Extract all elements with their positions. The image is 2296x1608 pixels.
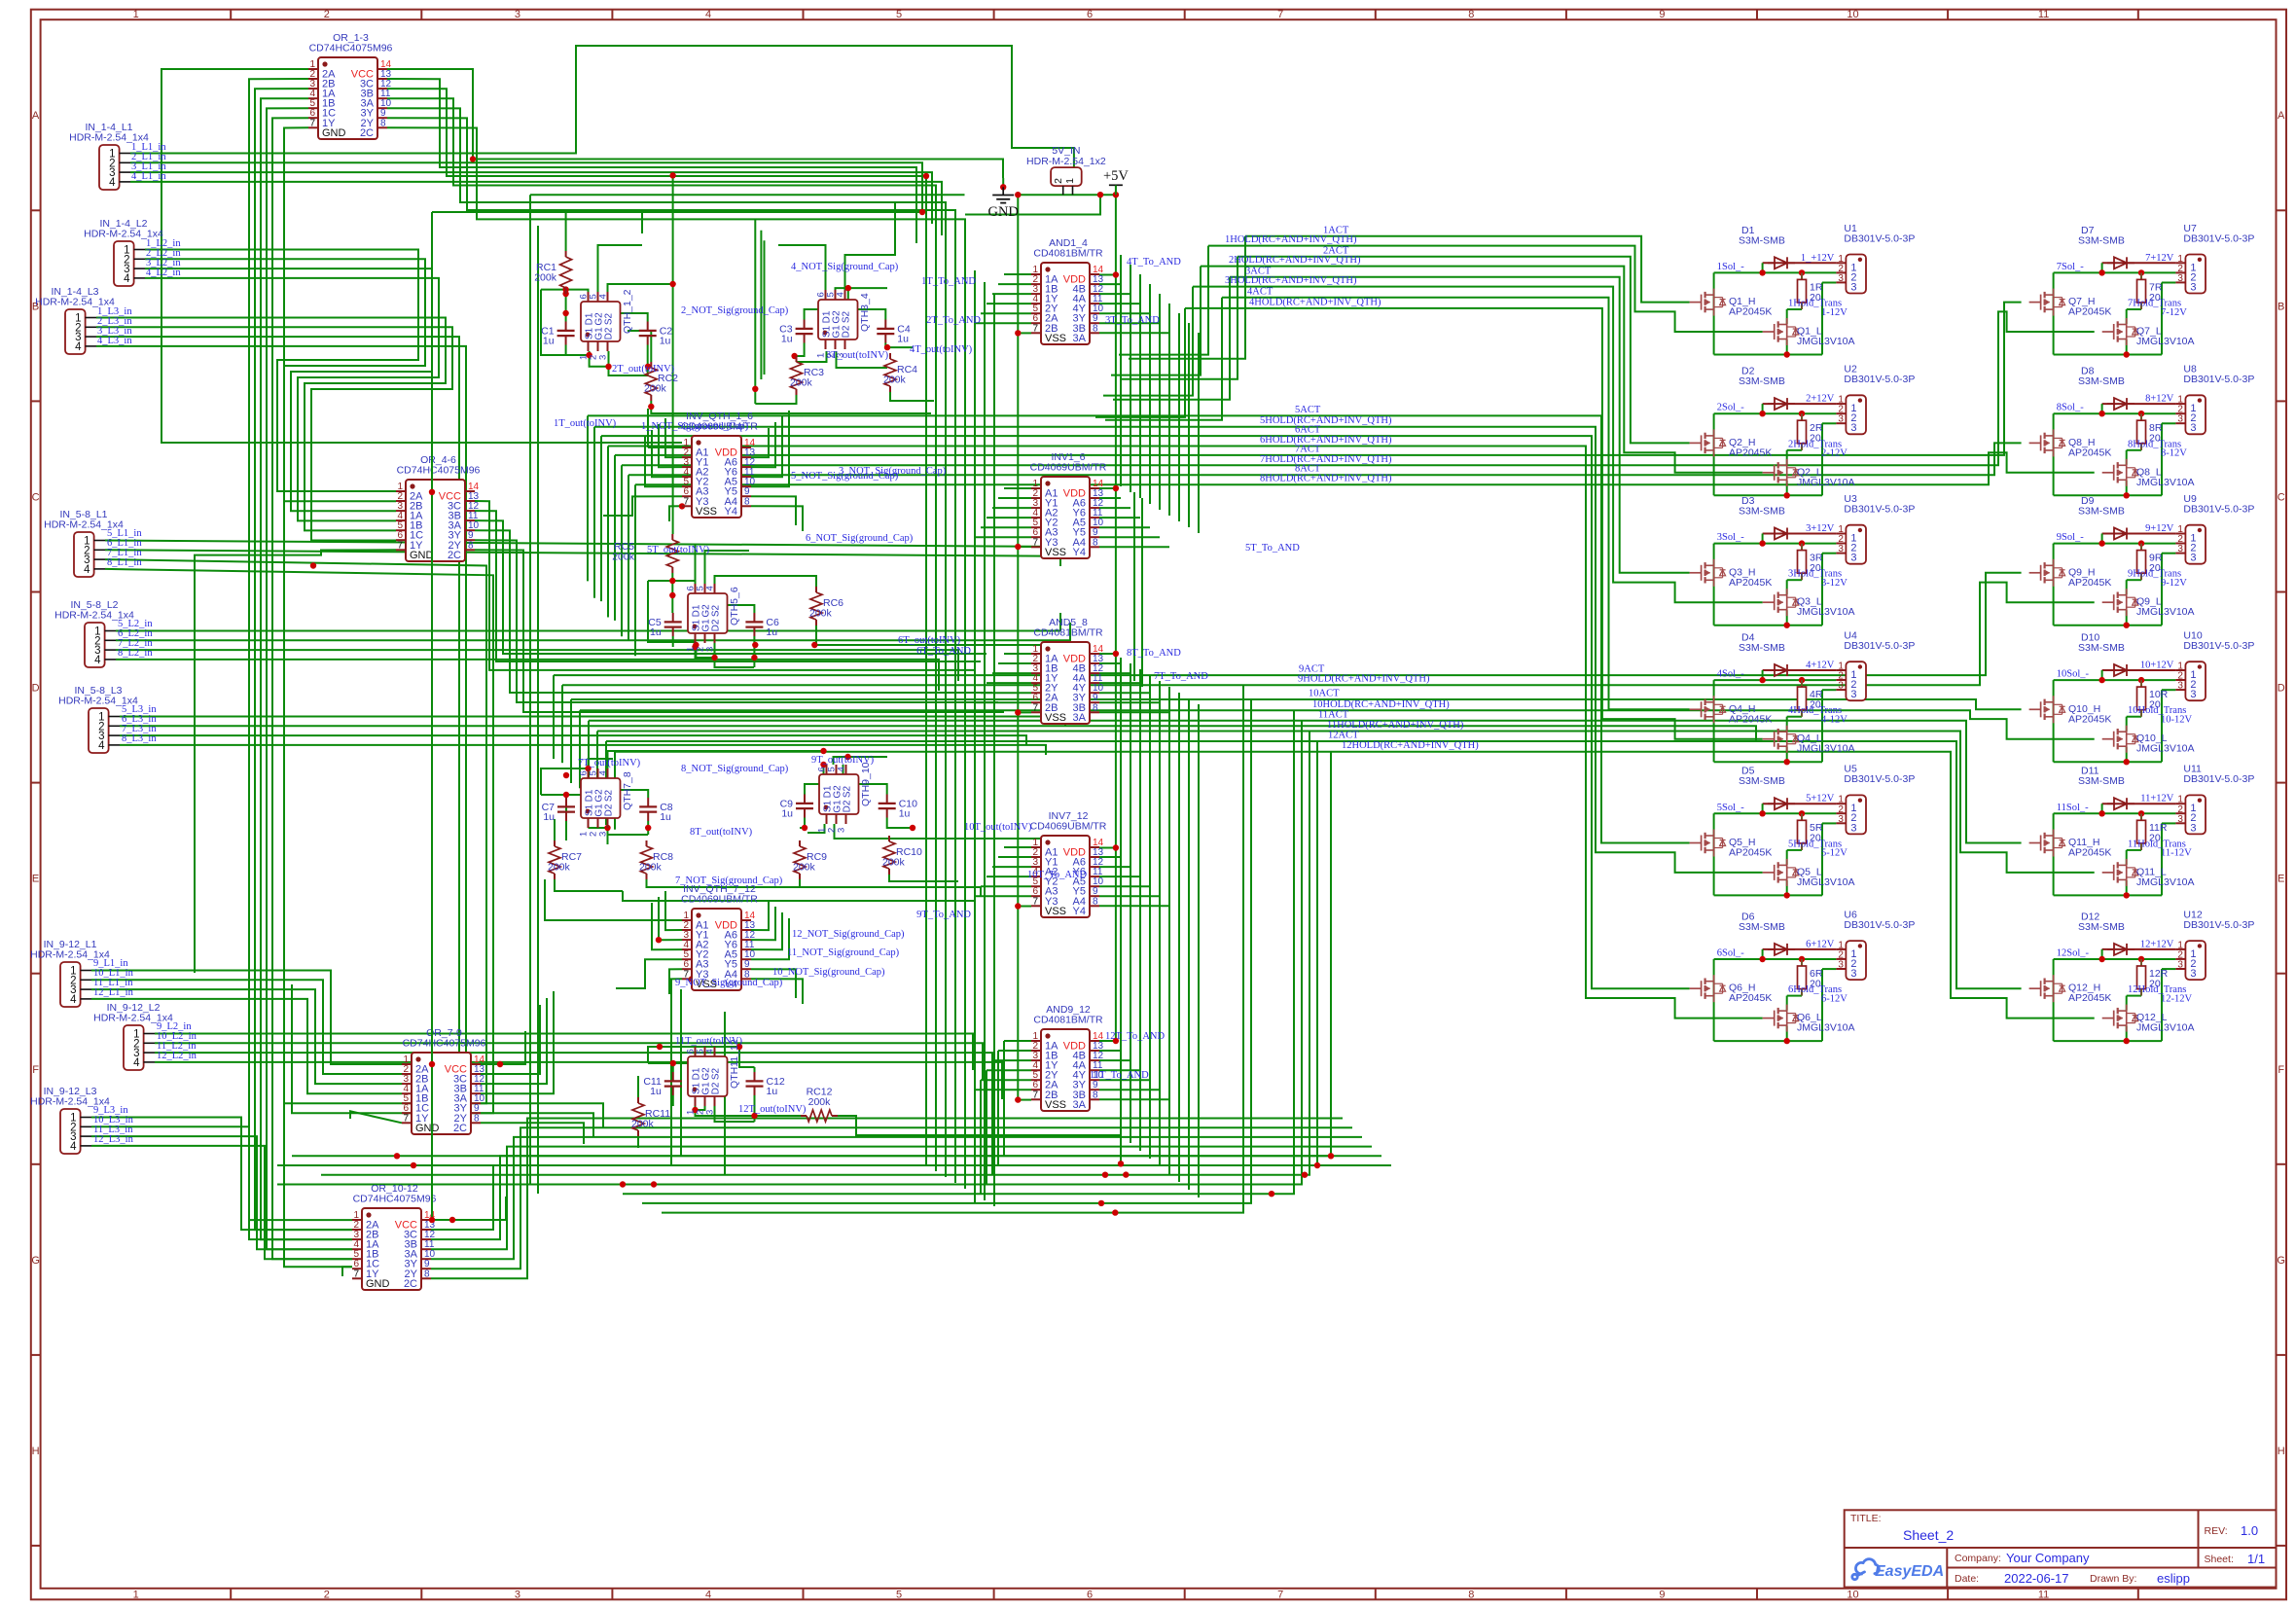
- node junction: [1113, 1038, 1119, 1044]
- wire: [1168, 304, 1170, 516]
- svg-text:8T_To_AND: 8T_To_AND: [1127, 648, 1181, 659]
- svg-text:11T_out(toINV): 11T_out(toINV): [675, 1036, 743, 1047]
- wire: [606, 741, 2022, 988]
- transistor Q6_H AP2045K: [1701, 981, 1703, 996]
- transistor Q7_H AP2045K: [2040, 295, 2042, 310]
- wire driver block 9: [2102, 533, 2176, 535]
- wire: [598, 245, 643, 292]
- wire: [541, 768, 589, 795]
- wire: [987, 875, 1031, 877]
- wire: [1095, 308, 1185, 417]
- node junction: [1098, 1200, 1104, 1206]
- svg-text:3-12V: 3-12V: [1821, 578, 1848, 589]
- wire: [1188, 323, 1190, 527]
- wire: [925, 212, 927, 1165]
- wire: [1133, 492, 1135, 681]
- node junction: [648, 404, 654, 410]
- capacitor C4 1u: [884, 320, 886, 329]
- svg-text:4: 4: [70, 1141, 77, 1153]
- svg-text:2C: 2C: [360, 127, 374, 139]
- wire: [1185, 308, 1763, 739]
- svg-text:DB301V-5.0-3P: DB301V-5.0-3P: [2183, 374, 2254, 385]
- wire: [992, 507, 1031, 509]
- svg-text:4: 4: [705, 586, 716, 590]
- svg-text:JMGL3V10A: JMGL3V10A: [2136, 477, 2195, 488]
- svg-text:3: 3: [1838, 544, 1844, 554]
- transistor Q4_L JMGL3V10A: [1774, 732, 1776, 747]
- wire: [753, 636, 755, 667]
- svg-text:10_NOT_Sig(ground_Cap): 10_NOT_Sig(ground_Cap): [772, 967, 885, 978]
- wire: [116, 650, 958, 681]
- header IN_9-12_L2 HDR-M-2.54_1x4: [124, 1025, 144, 1070]
- svg-text:3HOLD(RC+AND+INV_QTH): 3HOLD(RC+AND+INV_QTH): [1225, 275, 1357, 286]
- svg-text:AP2045K: AP2045K: [1729, 992, 1772, 1004]
- IC AND5_8 CD4081BM/TR: [1041, 642, 1090, 724]
- svg-text:9Sol_-: 9Sol_-: [2057, 532, 2085, 543]
- IC OR_10-12 CD74HC4075M96: [362, 1208, 421, 1290]
- svg-text:JMGL3V10A: JMGL3V10A: [1797, 477, 1855, 488]
- node junction: [604, 825, 610, 831]
- resistor 4R 20: [1801, 680, 1803, 687]
- wire: [754, 219, 756, 404]
- svg-text:F: F: [32, 1064, 39, 1076]
- wire: [598, 790, 649, 798]
- wire: [1129, 236, 1245, 359]
- wire: [987, 517, 1031, 518]
- wire: [475, 530, 992, 693]
- wire: [105, 559, 486, 1103]
- svg-text:DB301V-5.0-3P: DB301V-5.0-3P: [2183, 919, 2254, 931]
- wire: [588, 721, 590, 804]
- wire: [590, 351, 609, 367]
- wire: [475, 550, 1004, 712]
- wire: [751, 428, 769, 457]
- svg-text:DB301V-5.0-3P: DB301V-5.0-3P: [2183, 640, 2254, 652]
- svg-text:Sheet:: Sheet:: [2205, 1554, 2234, 1565]
- svg-text:DB301V-5.0-3P: DB301V-5.0-3P: [1844, 919, 1915, 931]
- wire: [1099, 293, 1130, 295]
- svg-text:S3M-SMB: S3M-SMB: [1739, 775, 1785, 787]
- wire: [751, 506, 803, 531]
- wire: [565, 345, 567, 356]
- svg-text:200k: 200k: [639, 862, 663, 874]
- wire: [120, 735, 1026, 745]
- svg-text:AP2045K: AP2045K: [1729, 713, 1772, 725]
- svg-text:9HOLD(RC+AND+INV_QTH): 9HOLD(RC+AND+INV_QTH): [1298, 674, 1430, 685]
- svg-text:2C: 2C: [448, 550, 461, 561]
- node junction: [1113, 844, 1119, 850]
- wire: [695, 645, 697, 658]
- svg-text:JMGL3V10A: JMGL3V10A: [1797, 606, 1855, 618]
- wire: [980, 1080, 982, 1194]
- svg-text:AP2045K: AP2045K: [2068, 577, 2111, 589]
- svg-text:12-12V: 12-12V: [2161, 993, 2192, 1004]
- svg-text:4HOLD(RC+AND+INV_QTH): 4HOLD(RC+AND+INV_QTH): [1249, 297, 1381, 307]
- wire: [555, 879, 623, 891]
- connector U4 DB301V-5.0-3P: [1846, 661, 1866, 700]
- wire: [321, 732, 1309, 1175]
- wire: [608, 818, 649, 835]
- wire: [541, 794, 589, 796]
- wire: [1222, 298, 1690, 710]
- wire: [1018, 546, 1031, 548]
- wire: [623, 891, 975, 901]
- wire: [1120, 658, 1122, 1135]
- transistor Q9_L JMGL3V10A: [2113, 594, 2115, 610]
- resistor 3R 20: [1801, 544, 1803, 551]
- node junction: [562, 291, 568, 297]
- wire: [672, 1063, 674, 1072]
- svg-text:3: 3: [1838, 681, 1844, 692]
- wire: [993, 294, 995, 1206]
- wire: [1099, 672, 1130, 674]
- node junction: [751, 1113, 757, 1119]
- svg-text:Sheet_2: Sheet_2: [1903, 1527, 1954, 1543]
- wire: [105, 541, 1051, 557]
- wire: [648, 1047, 660, 1063]
- svg-text:8_L2_in: 8_L2_in: [118, 648, 153, 659]
- wire: [350, 1111, 402, 1123]
- resistor 6R 20: [1801, 959, 1803, 966]
- svg-text:5_NOT_Sig(ground_Cap): 5_NOT_Sig(ground_Cap): [791, 471, 899, 482]
- svg-text:CD4081BM/TR: CD4081BM/TR: [1033, 248, 1103, 260]
- wire: [155, 1034, 973, 1071]
- node junction: [497, 1061, 503, 1067]
- svg-text:S3M-SMB: S3M-SMB: [1739, 642, 1785, 654]
- svg-text:3: 3: [2177, 414, 2183, 425]
- svg-text:Y4: Y4: [1073, 547, 1086, 558]
- svg-text:1u: 1u: [650, 626, 662, 638]
- wire: [974, 1090, 976, 1203]
- node junction: [751, 655, 757, 661]
- svg-text:3: 3: [2190, 553, 2196, 564]
- wire: [1099, 332, 1169, 334]
- header IN_5-8_L3 HDR-M-2.54_1x4: [89, 708, 109, 753]
- svg-text:3A: 3A: [1073, 1099, 1087, 1111]
- svg-text:2-12V: 2-12V: [1821, 448, 1848, 459]
- svg-text:4: 4: [75, 341, 82, 353]
- node junction: [1102, 1172, 1108, 1178]
- svg-text:3: 3: [2177, 814, 2183, 825]
- wire: [987, 1069, 1031, 1071]
- node junction: [620, 1181, 626, 1187]
- node junction: [1000, 184, 1006, 190]
- svg-text:H: H: [32, 1446, 40, 1457]
- node junction: [693, 642, 699, 648]
- node junction: [669, 592, 675, 598]
- resistor RC6 200k: [815, 587, 817, 592]
- wire: [845, 202, 896, 300]
- wire: [1099, 692, 1150, 694]
- wire: [588, 415, 1690, 842]
- svg-text:VSS: VSS: [1045, 1099, 1066, 1111]
- svg-text:Y4: Y4: [1073, 906, 1086, 917]
- resistor 11R 20: [2140, 813, 2142, 820]
- wire: [652, 903, 682, 949]
- resistor 8R 20: [2140, 413, 2142, 420]
- wire: [1018, 711, 1031, 713]
- svg-text:7: 7: [1032, 896, 1038, 907]
- svg-text:JMGL3V10A: JMGL3V10A: [1797, 876, 1855, 888]
- svg-text:7_NOT_Sig(ground_Cap): 7_NOT_Sig(ground_Cap): [675, 875, 783, 886]
- node junction: [563, 792, 569, 798]
- wire: [836, 288, 888, 300]
- wire: [475, 520, 987, 654]
- wire: [120, 745, 1046, 755]
- svg-text:VSS: VSS: [1045, 547, 1066, 558]
- header IN_1-4_L1 HDR-M-2.54_1x4: [99, 145, 120, 190]
- wire: [605, 741, 607, 825]
- wire: [1099, 682, 1140, 684]
- svg-text:VSS: VSS: [1045, 333, 1066, 344]
- svg-text:1/1: 1/1: [2247, 1552, 2265, 1566]
- wire: [637, 1076, 639, 1097]
- svg-text:S2: S2: [604, 312, 615, 325]
- wire: [607, 447, 609, 618]
- wire: [96, 337, 459, 1064]
- wire: [116, 623, 1070, 640]
- resistor RC5 200k: [671, 534, 673, 540]
- svg-text:CD74HC4075M96: CD74HC4075M96: [309, 43, 393, 54]
- node junction: [1015, 544, 1021, 550]
- wire: [998, 1050, 1031, 1052]
- svg-text:S3M-SMB: S3M-SMB: [2078, 506, 2125, 518]
- node junction: [1097, 192, 1103, 197]
- svg-text:3: 3: [2190, 281, 2196, 293]
- transistor Q12_H AP2045K: [2040, 981, 2042, 996]
- wire: [565, 796, 567, 823]
- capacitor C2 1u: [647, 322, 649, 331]
- wire: [554, 573, 2022, 675]
- wire: [593, 427, 595, 598]
- svg-text:D: D: [2278, 683, 2285, 695]
- wire: [105, 550, 1060, 566]
- svg-text:S3M-SMB: S3M-SMB: [2078, 375, 2125, 387]
- svg-text:JMGL3V10A: JMGL3V10A: [2136, 606, 2195, 618]
- svg-text:2: 2: [324, 1589, 330, 1600]
- wire driver block 1: [1763, 262, 1837, 264]
- svg-text:12T_out(toINV): 12T_out(toINV): [738, 1104, 807, 1115]
- diode D6 S3M-SMB: [1768, 948, 1775, 950]
- header IN_5-8_L1 HDR-M-2.54_1x4: [74, 532, 94, 577]
- svg-text:7: 7: [1032, 323, 1038, 334]
- resistor RC4 200k: [889, 353, 891, 359]
- node junction: [1113, 651, 1119, 657]
- svg-text:3: 3: [2177, 544, 2183, 554]
- wire: [645, 436, 682, 486]
- diode D11 S3M-SMB: [2107, 803, 2114, 804]
- wire: [843, 765, 844, 784]
- svg-text:11T_To_AND: 11T_To_AND: [1090, 1070, 1149, 1081]
- svg-text:8: 8: [468, 540, 474, 551]
- wire: [797, 351, 827, 362]
- node junction: [585, 766, 591, 771]
- wire: [704, 593, 706, 605]
- node junction: [657, 1044, 663, 1050]
- wire: [1099, 1059, 1130, 1061]
- wire: [614, 455, 616, 621]
- svg-text:1u: 1u: [543, 811, 555, 823]
- wire: [670, 1002, 672, 1165]
- capacitor C11 1u: [672, 1072, 674, 1081]
- wire: [91, 1136, 352, 1249]
- wire: [387, 79, 916, 243]
- wire: [565, 832, 567, 840]
- wire: [1141, 498, 1143, 687]
- node junction: [1015, 903, 1021, 909]
- svg-text:12_L3_in: 12_L3_in: [93, 1134, 134, 1145]
- wire: [608, 751, 824, 768]
- connector U2 DB301V-5.0-3P: [1846, 395, 1866, 434]
- svg-text:200k: 200k: [808, 1096, 832, 1108]
- svg-text:8: 8: [1093, 323, 1098, 334]
- svg-text:2C: 2C: [404, 1278, 417, 1290]
- wire: [754, 1095, 756, 1122]
- svg-text:4: 4: [133, 1057, 140, 1069]
- wire: [1004, 273, 1031, 275]
- svg-text:4: 4: [84, 564, 90, 576]
- transistor Q8_H AP2045K: [2040, 435, 2042, 450]
- wire: [565, 823, 567, 832]
- resistor RC11 200k: [637, 1097, 639, 1103]
- wire: [566, 212, 642, 251]
- wire: [541, 290, 589, 292]
- wire: [847, 288, 849, 300]
- wire: [648, 581, 696, 593]
- wire: [715, 643, 755, 667]
- wire: [1004, 653, 1031, 655]
- wire: [145, 259, 425, 501]
- wire: [431, 1147, 1372, 1250]
- svg-text:REV:: REV:: [2205, 1525, 2228, 1537]
- resistor 9R 20: [2140, 544, 2142, 551]
- svg-text:12ACT: 12ACT: [1328, 731, 1359, 741]
- svg-text:1u: 1u: [781, 334, 793, 345]
- connector U1 DB301V-5.0-3P: [1846, 255, 1866, 294]
- svg-text:7HOLD(RC+AND+INV_QTH): 7HOLD(RC+AND+INV_QTH): [1260, 454, 1392, 465]
- wire: [1121, 257, 1238, 379]
- svg-text:200k: 200k: [882, 857, 906, 869]
- wire: [91, 999, 402, 1093]
- wire: [1230, 277, 1690, 573]
- transistor Q9_H AP2045K: [2040, 565, 2042, 581]
- wire driver block 5: [1763, 803, 1837, 804]
- svg-text:9: 9: [1659, 1589, 1665, 1600]
- wire: [1099, 487, 1116, 489]
- wire driver block 8: [2102, 403, 2176, 405]
- wire: [587, 415, 589, 581]
- svg-text:6T_To_AND: 6T_To_AND: [916, 646, 971, 657]
- svg-text:A: A: [32, 110, 40, 122]
- capacitor C1 1u: [565, 322, 567, 331]
- svg-text:JMGL3V10A: JMGL3V10A: [2136, 743, 2195, 755]
- wire: [155, 1062, 1002, 1099]
- wire: [805, 765, 824, 795]
- capacitor C8 1u: [647, 798, 649, 806]
- wire: [998, 283, 1031, 285]
- wire: [130, 162, 922, 212]
- svg-text:10Sol_-: 10Sol_-: [2057, 669, 2090, 680]
- wire: [1099, 322, 1160, 324]
- wire: [1017, 195, 1019, 1099]
- svg-text:DB301V-5.0-3P: DB301V-5.0-3P: [2183, 504, 2254, 516]
- wire: [255, 89, 352, 1230]
- transistor Q3_L JMGL3V10A: [1774, 594, 1776, 610]
- svg-text:S2: S2: [711, 604, 722, 617]
- svg-text:8: 8: [1093, 702, 1098, 713]
- node junction: [736, 1044, 742, 1050]
- wire: [615, 303, 2022, 455]
- svg-text:3A: 3A: [1073, 712, 1087, 724]
- node junction: [645, 364, 651, 370]
- wire: [887, 818, 913, 829]
- transistor Q5_L JMGL3V10A: [1774, 865, 1776, 880]
- wire: [267, 108, 352, 1249]
- diode D3 S3M-SMB: [1768, 533, 1775, 535]
- wire: [1120, 1135, 1122, 1163]
- wire: [91, 1118, 352, 1231]
- wire: [760, 231, 762, 379]
- svg-text:11_NOT_Sig(ground_Cap): 11_NOT_Sig(ground_Cap): [787, 947, 900, 958]
- wire: [1099, 526, 1150, 528]
- svg-text:EasyEDA: EasyEDA: [1875, 1563, 1944, 1580]
- resistor RC8 200k: [646, 840, 648, 846]
- wire driver block 12: [2102, 948, 2176, 950]
- transistor Q1_L JMGL3V10A: [1774, 324, 1776, 339]
- node junction: [802, 825, 807, 831]
- svg-text:3: 3: [1850, 822, 1856, 834]
- connector U8 DB301V-5.0-3P: [2185, 395, 2206, 434]
- wire: [975, 701, 1031, 703]
- wire: [992, 866, 1031, 868]
- wire: [481, 1113, 593, 1136]
- wire: [1193, 287, 1763, 603]
- svg-text:3: 3: [705, 647, 716, 652]
- wire: [1130, 265, 1131, 492]
- wire: [1159, 294, 1161, 510]
- IC AND1_4 CD4081BM/TR: [1041, 263, 1090, 344]
- wire: [647, 345, 649, 376]
- wire: [954, 247, 956, 1183]
- node junction: [692, 1107, 698, 1113]
- capacitor C12 1u: [754, 1072, 756, 1081]
- wire: [608, 447, 1763, 1018]
- wire: [1208, 246, 1763, 332]
- transistor Q2_H AP2045K: [1701, 435, 1703, 450]
- svg-text:7: 7: [1032, 702, 1038, 713]
- wire: [529, 195, 531, 1185]
- resistor RC12 200k: [801, 1115, 807, 1117]
- wire: [705, 551, 750, 593]
- connector U12 DB301V-5.0-3P: [2185, 941, 2206, 980]
- svg-text:7: 7: [397, 540, 403, 551]
- wire: [751, 969, 796, 998]
- wire: [991, 1060, 993, 1175]
- svg-text:AP2045K: AP2045K: [1729, 847, 1772, 859]
- wire: [571, 699, 2022, 709]
- wire: [1178, 313, 1180, 521]
- wire: [751, 979, 803, 1004]
- svg-text:12HOLD(RC+AND+INV_QTH): 12HOLD(RC+AND+INV_QTH): [1342, 740, 1479, 751]
- wire: [987, 682, 1031, 684]
- wire: [155, 1053, 992, 1090]
- wire: [648, 1062, 696, 1064]
- svg-text:3: 3: [1850, 553, 1856, 564]
- wire: [1139, 669, 1141, 1151]
- svg-text:3T_To_AND: 3T_To_AND: [1105, 315, 1160, 326]
- svg-text:CD74HC4075M96: CD74HC4075M96: [403, 1038, 486, 1050]
- svg-text:4: 4: [109, 177, 116, 189]
